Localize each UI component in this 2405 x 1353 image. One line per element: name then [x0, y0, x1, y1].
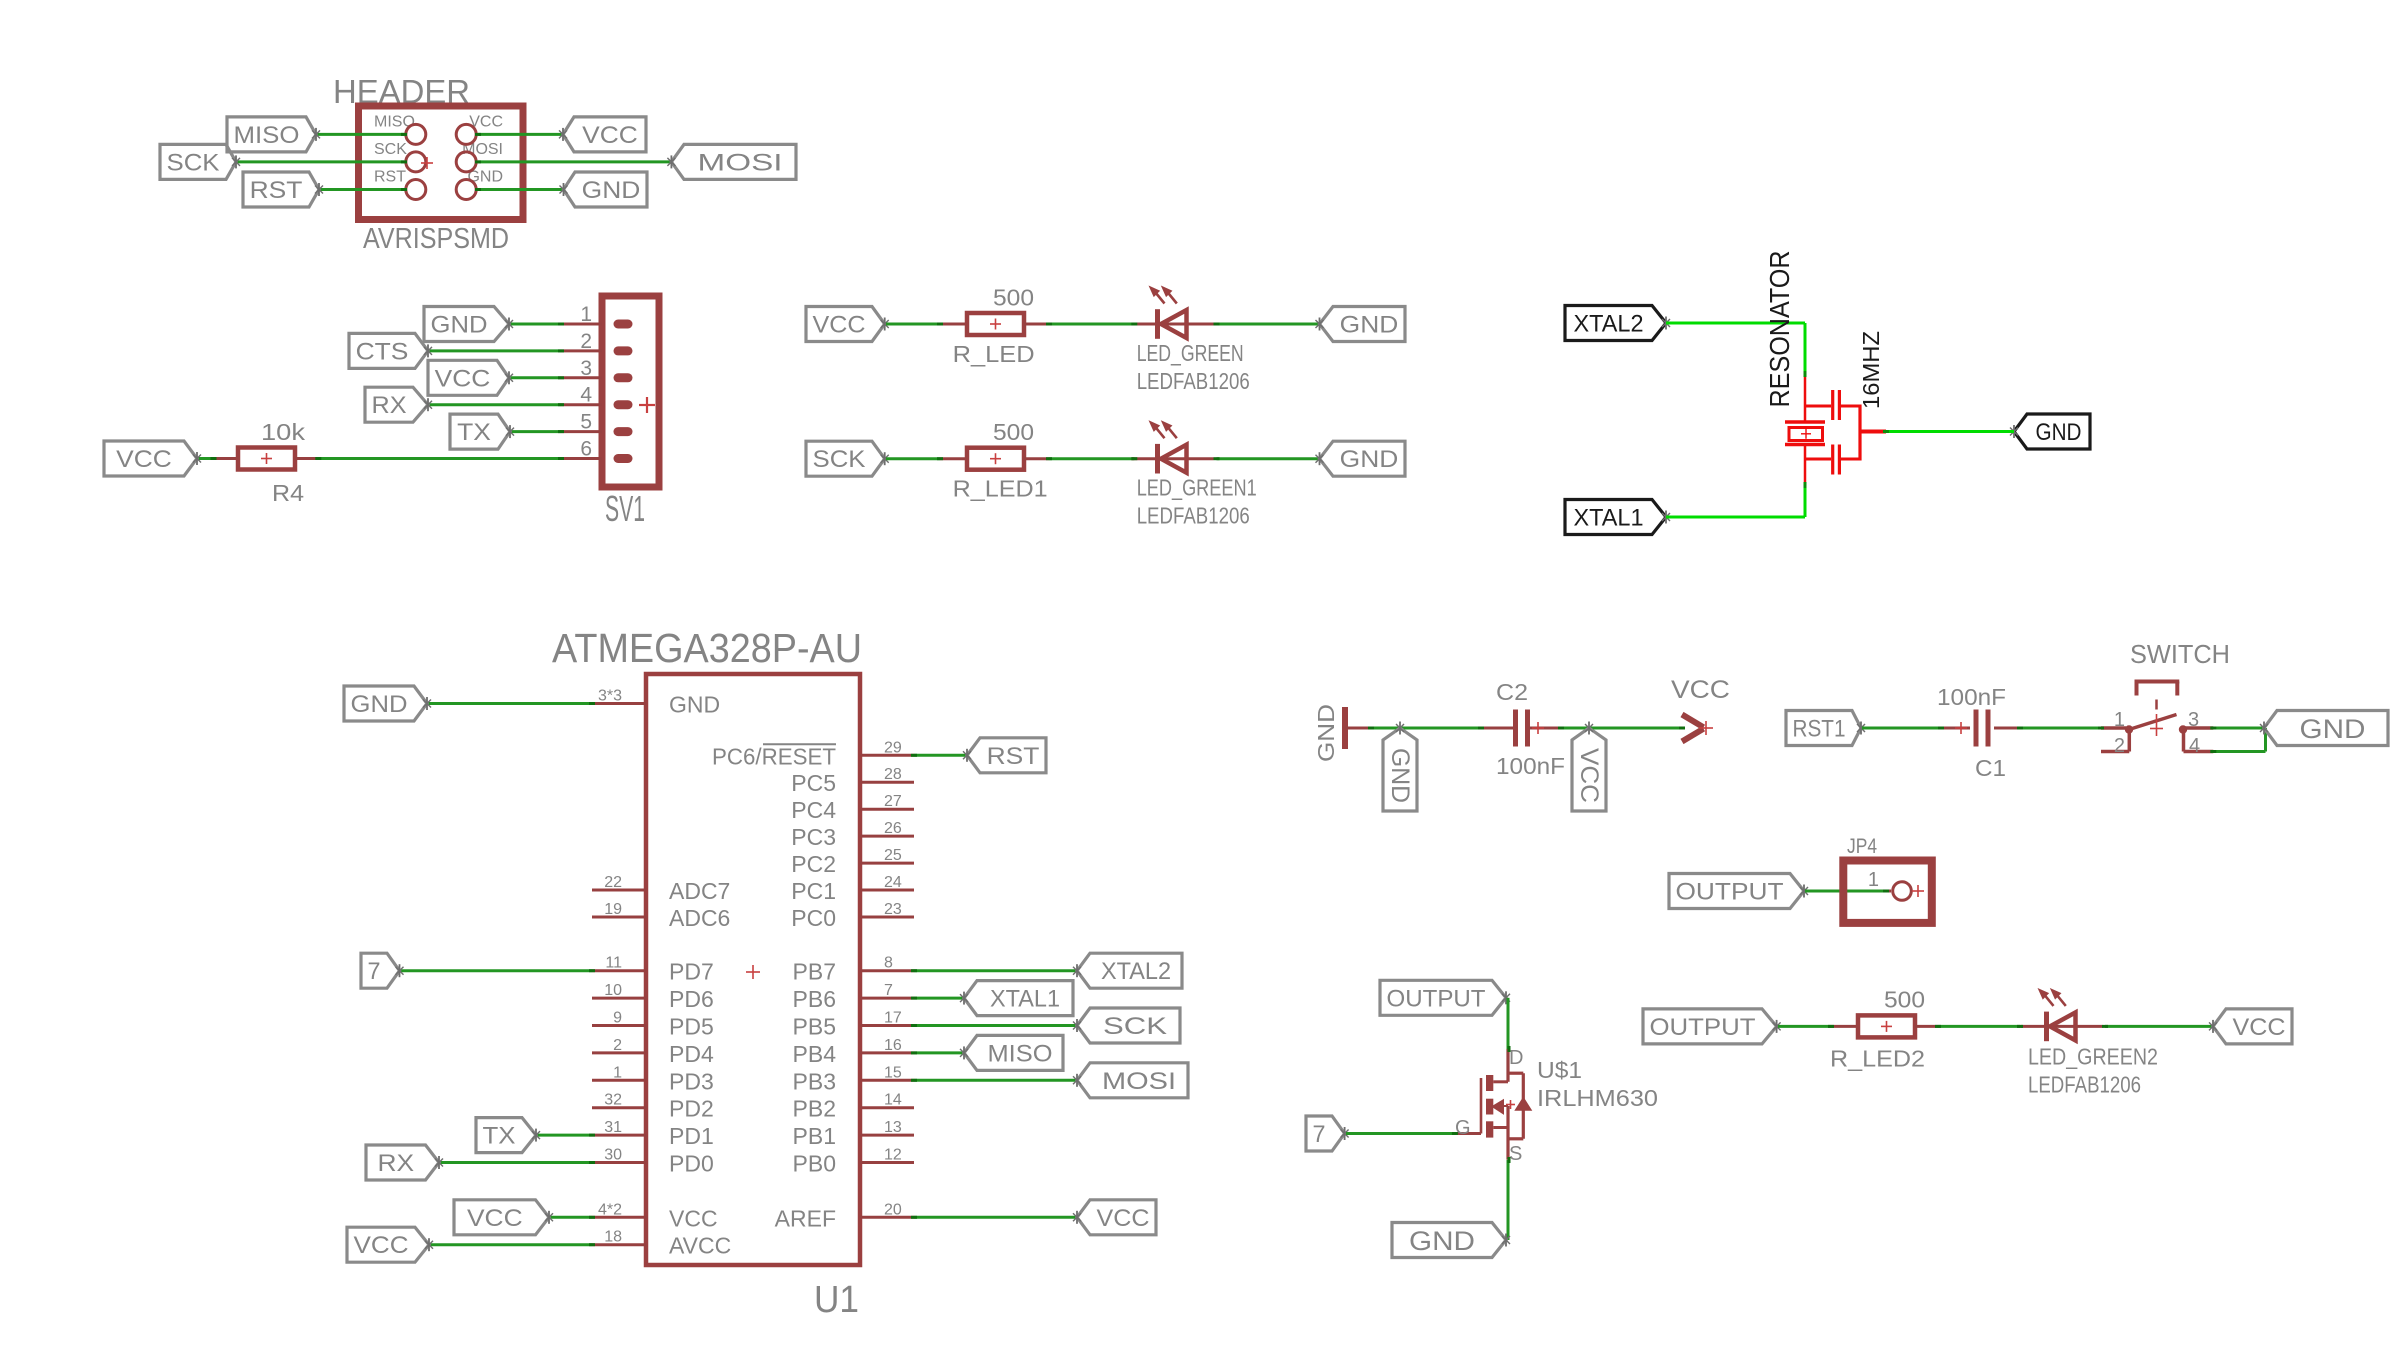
svg-text:SCK: SCK: [167, 149, 220, 176]
svg-text:PD1: PD1: [669, 1123, 714, 1149]
svg-text:C1: C1: [1975, 755, 2006, 781]
svg-text:OUTPUT: OUTPUT: [1676, 879, 1784, 906]
svg-text:RX: RX: [372, 392, 407, 419]
svg-text:PC6/RESET: PC6/RESET: [712, 743, 836, 769]
svg-text:G: G: [1455, 1117, 1471, 1139]
svg-text:VCC: VCC: [116, 446, 172, 473]
svg-text:2: 2: [2114, 735, 2125, 757]
svg-text:CTS: CTS: [356, 338, 409, 365]
svg-text:23: 23: [884, 901, 902, 918]
svg-text:OUTPUT: OUTPUT: [1650, 1014, 1756, 1041]
svg-text:LED_GREEN2: LED_GREEN2: [2028, 1043, 2158, 1069]
svg-text:14: 14: [884, 1092, 902, 1109]
svg-text:XTAL2: XTAL2: [1574, 311, 1644, 338]
svg-text:PD4: PD4: [669, 1041, 714, 1067]
svg-text:10: 10: [604, 982, 622, 999]
svg-text:PD0: PD0: [669, 1151, 714, 1177]
svg-text:9: 9: [613, 1010, 622, 1027]
svg-text:SCK: SCK: [1103, 1013, 1167, 1040]
svg-text:JP4: JP4: [1847, 835, 1877, 858]
svg-text:ADC6: ADC6: [669, 905, 730, 931]
svg-text:PB3: PB3: [793, 1068, 836, 1094]
svg-text:U$1: U$1: [1537, 1057, 1582, 1083]
svg-text:LEDFAB1206: LEDFAB1206: [2028, 1071, 2141, 1097]
svg-text:RX: RX: [377, 1150, 414, 1177]
svg-text:SV1: SV1: [605, 488, 645, 529]
svg-text:RESONATOR: RESONATOR: [1764, 251, 1795, 408]
svg-text:8: 8: [884, 955, 893, 972]
svg-text:500: 500: [993, 419, 1034, 445]
svg-text:32: 32: [604, 1092, 622, 1109]
svg-text:S: S: [1509, 1143, 1522, 1165]
svg-text:TX: TX: [457, 419, 491, 446]
svg-text:17: 17: [884, 1010, 902, 1027]
svg-text:XTAL1: XTAL1: [1574, 505, 1644, 532]
svg-text:GND: GND: [2300, 714, 2366, 744]
svg-text:500: 500: [1884, 986, 1925, 1012]
svg-text:100nF: 100nF: [1937, 684, 2006, 710]
svg-text:VCC: VCC: [582, 122, 638, 149]
svg-text:GND: GND: [2036, 419, 2082, 446]
svg-text:4: 4: [2189, 735, 2200, 757]
svg-text:AVCC: AVCC: [669, 1233, 731, 1259]
svg-text:R4: R4: [272, 480, 304, 506]
svg-text:GND: GND: [1313, 704, 1339, 762]
svg-text:100nF: 100nF: [1496, 753, 1565, 779]
svg-text:18: 18: [604, 1229, 622, 1246]
svg-text:D: D: [1509, 1047, 1523, 1069]
svg-text:MISO: MISO: [234, 122, 300, 149]
svg-text:12: 12: [884, 1147, 902, 1164]
svg-text:22: 22: [604, 874, 622, 891]
svg-text:VCC: VCC: [354, 1232, 409, 1259]
svg-text:7: 7: [1313, 1121, 1326, 1148]
svg-text:MISO: MISO: [988, 1040, 1053, 1067]
svg-text:AVRISPSMD: AVRISPSMD: [363, 223, 509, 255]
svg-text:1: 1: [2114, 709, 2125, 731]
svg-text:C2: C2: [1496, 679, 1528, 705]
svg-text:PC3: PC3: [791, 824, 836, 850]
svg-text:1: 1: [613, 1064, 622, 1081]
svg-text:11: 11: [605, 955, 622, 972]
svg-text:26: 26: [884, 820, 902, 837]
svg-text:LEDFAB1206: LEDFAB1206: [1137, 368, 1250, 394]
svg-text:GND: GND: [1340, 312, 1399, 339]
svg-text:GND: GND: [351, 691, 408, 718]
svg-text:28: 28: [884, 766, 902, 783]
svg-text:3: 3: [2188, 709, 2199, 731]
svg-text:SCK: SCK: [374, 141, 407, 158]
svg-text:VCC: VCC: [467, 1205, 523, 1232]
svg-text:VCC: VCC: [1097, 1205, 1150, 1232]
svg-text:PB1: PB1: [793, 1123, 836, 1149]
svg-text:PC0: PC0: [791, 905, 836, 931]
svg-text:PC2: PC2: [791, 851, 836, 877]
svg-text:31: 31: [604, 1119, 622, 1136]
svg-text:4*2: 4*2: [598, 1201, 622, 1218]
svg-text:3*3: 3*3: [598, 688, 622, 705]
svg-text:TX: TX: [483, 1123, 516, 1150]
svg-text:15: 15: [884, 1064, 902, 1081]
svg-text:19: 19: [604, 901, 622, 918]
svg-text:7: 7: [884, 982, 893, 999]
svg-text:VCC: VCC: [1575, 748, 1603, 803]
svg-text:GND: GND: [1340, 446, 1399, 473]
svg-text:RST: RST: [987, 743, 1040, 770]
svg-text:PD3: PD3: [669, 1068, 714, 1094]
svg-text:GND: GND: [582, 177, 641, 204]
svg-text:PD5: PD5: [669, 1014, 714, 1040]
svg-text:LED_GREEN1: LED_GREEN1: [1137, 475, 1257, 501]
svg-text:RST1: RST1: [1793, 716, 1846, 743]
svg-text:PB6: PB6: [793, 986, 836, 1012]
svg-text:GND: GND: [669, 692, 720, 718]
svg-text:GND: GND: [1386, 748, 1414, 803]
svg-text:PD6: PD6: [669, 986, 714, 1012]
svg-text:PD2: PD2: [669, 1096, 714, 1122]
svg-text:16MHZ: 16MHZ: [1858, 331, 1884, 409]
svg-text:2: 2: [613, 1037, 622, 1054]
svg-text:4: 4: [580, 384, 592, 407]
svg-text:XTAL1: XTAL1: [990, 986, 1060, 1013]
svg-text:30: 30: [604, 1147, 622, 1164]
svg-text:ATMEGA328P-AU: ATMEGA328P-AU: [552, 625, 862, 671]
svg-text:2: 2: [580, 330, 592, 353]
svg-text:VCC: VCC: [813, 312, 866, 339]
svg-text:MOSI: MOSI: [1102, 1068, 1176, 1095]
svg-text:25: 25: [884, 847, 902, 864]
svg-text:VCC: VCC: [435, 365, 491, 392]
svg-text:PB5: PB5: [793, 1014, 836, 1040]
svg-text:PB4: PB4: [793, 1041, 837, 1067]
svg-text:PD7: PD7: [669, 959, 714, 985]
svg-text:PC1: PC1: [791, 878, 836, 904]
svg-text:27: 27: [884, 793, 902, 810]
svg-text:VCC: VCC: [2233, 1014, 2286, 1041]
svg-text:GND: GND: [1409, 1226, 1475, 1256]
svg-text:7: 7: [368, 958, 381, 985]
svg-text:24: 24: [884, 874, 902, 891]
svg-text:U1: U1: [814, 1279, 859, 1321]
svg-text:RST: RST: [250, 177, 303, 204]
svg-text:PB7: PB7: [793, 959, 836, 985]
svg-text:3: 3: [580, 357, 592, 380]
svg-text:PC5: PC5: [791, 770, 836, 796]
svg-text:RST: RST: [374, 169, 406, 186]
svg-text:R_LED: R_LED: [953, 341, 1035, 367]
svg-text:SWITCH: SWITCH: [2130, 639, 2230, 669]
svg-text:OUTPUT: OUTPUT: [1387, 985, 1486, 1012]
svg-text:XTAL2: XTAL2: [1101, 958, 1171, 985]
svg-text:PB2: PB2: [793, 1096, 836, 1122]
svg-text:AREF: AREF: [775, 1205, 836, 1231]
svg-text:MOSI: MOSI: [698, 149, 783, 176]
svg-text:R_LED1: R_LED1: [953, 476, 1048, 502]
svg-text:PB0: PB0: [793, 1151, 836, 1177]
svg-text:LED_GREEN: LED_GREEN: [1137, 340, 1244, 366]
svg-text:500: 500: [993, 284, 1034, 310]
svg-text:IRLHM630: IRLHM630: [1537, 1085, 1658, 1111]
svg-text:1: 1: [580, 303, 592, 326]
svg-text:1: 1: [1868, 869, 1879, 891]
svg-text:5: 5: [580, 411, 592, 434]
svg-text:SCK: SCK: [813, 446, 866, 473]
svg-text:20: 20: [884, 1201, 902, 1218]
svg-text:13: 13: [884, 1119, 902, 1136]
svg-text:16: 16: [884, 1037, 902, 1054]
svg-text:VCC: VCC: [1671, 676, 1730, 704]
svg-text:PC4: PC4: [791, 797, 836, 823]
svg-text:LEDFAB1206: LEDFAB1206: [1137, 503, 1250, 529]
svg-text:29: 29: [884, 739, 902, 756]
svg-text:VCC: VCC: [669, 1205, 718, 1231]
svg-text:ADC7: ADC7: [669, 878, 730, 904]
svg-text:R_LED2: R_LED2: [1830, 1045, 1925, 1071]
svg-text:10k: 10k: [261, 419, 306, 445]
svg-text:6: 6: [580, 438, 592, 461]
svg-text:GND: GND: [431, 312, 488, 339]
